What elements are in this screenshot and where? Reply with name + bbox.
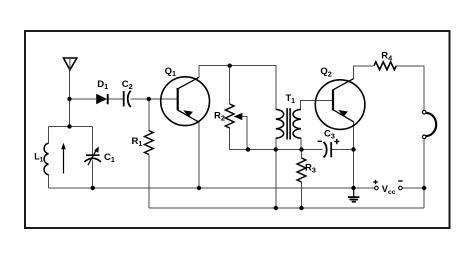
wire antenna to D1 [70,98,97,100]
node tank top [67,124,71,128]
svg-text:Q2: Q2 [320,66,331,78]
C1 arrow [88,146,99,165]
resistor R1 [145,131,154,155]
svg-text:C3: C3 [324,129,335,141]
node top rail R2 [228,63,232,67]
node antenna/D1 [67,97,71,101]
wire R3 top stub [301,150,303,159]
svg-text:R4: R4 [381,50,392,62]
C3 plus sign [334,139,339,144]
node tank bottom [91,186,95,190]
node lower rail R3 [299,206,303,210]
wire C3 to Q2 emitter [331,149,353,151]
svg-text:D1: D1 [97,79,108,91]
wire main ground rail [49,187,375,189]
wire R2 wiper [242,117,248,150]
wire node R2 to C3 [248,149,323,151]
transistor Q2 [315,79,365,130]
Q1 emitter arrow [183,110,193,117]
wire C1 top stub [92,127,94,156]
svg-text:R3: R3 [305,163,316,175]
C3 minus sign [318,140,322,142]
wire L1 bottom stub [48,175,50,188]
inductor L1 [44,143,48,174]
node lower rail T1 [274,206,278,210]
node Q1 emitter rail [197,186,201,190]
svg-text:C1: C1 [104,152,115,164]
wire antenna lead [69,69,71,126]
node T1 primary bottom [274,147,278,151]
wire Q1 emitter down [198,122,200,188]
wire T1 primary bottom down [275,138,277,208]
capacitor C2 [124,91,131,107]
wire R2 bottom [230,128,248,150]
svg-text:Q1: Q1 [165,66,176,78]
ground [348,188,359,202]
wire R3 bottom stub [301,182,303,208]
potentiometer R2 [225,104,234,128]
wire C2 to Q1 base [131,98,178,100]
svg-text:T1: T1 [286,93,296,105]
node ground rail [351,186,355,190]
battery plus terminal [375,186,379,190]
transformer T1 [276,108,301,139]
wire Vcc minus to right rail [403,187,425,189]
L1 arrow [61,143,66,174]
node wiper join [246,147,250,151]
wire T1 secondary top to Q2 base [301,100,334,109]
resistor R4 [374,62,396,70]
svg-text:R1: R1 [132,136,143,148]
wire L1 top stub [48,127,50,144]
wire D1 to C2 [108,98,124,100]
plus sign [373,180,377,184]
resistor R3 [297,158,306,182]
diode D1 [96,94,108,105]
transistor Q1 [161,77,210,126]
node right rail [422,186,426,190]
wire tank top [49,126,93,128]
wire T1 secondary bottom [300,138,302,149]
wire R1 bottom to lower rail [148,155,150,209]
svg-text:L1: L1 [34,152,43,164]
antenna [64,58,77,70]
battery minus terminal [399,186,403,190]
wire C1 bottom stub [92,161,94,189]
svg-text:C2: C2 [122,79,133,91]
wire Q2 collector to R4 [354,66,373,79]
capacitor C3 [324,142,332,157]
earphone [422,110,436,138]
variable capacitor C1 [84,155,101,162]
Q2 emitter arrow [338,110,348,117]
wire R2 top branch [229,66,231,104]
border frame [25,31,450,228]
wire earphone bottom down [423,139,425,208]
wire Q2 emitter down [353,122,355,188]
wire R1 top [148,99,150,131]
svg-text:R2: R2 [214,111,225,123]
node C3 emitter [351,147,355,151]
R2 wiper arrow [234,113,243,120]
wire Q1 collector to top rail [199,66,276,110]
wire lower rail [149,207,424,209]
svg-text:Vcc: Vcc [382,184,396,196]
minus sign [398,180,402,182]
wire R4 to earphone [396,66,424,111]
node R1 top [147,97,151,101]
node R3 top [299,147,303,151]
